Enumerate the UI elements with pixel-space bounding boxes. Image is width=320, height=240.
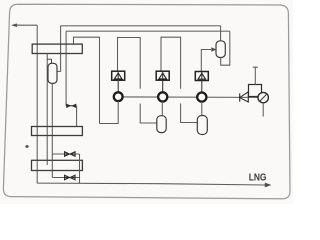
valve C1 (circle): [114, 92, 123, 101]
manifold M0 (top header): [32, 44, 82, 53]
regulator R1 valve circle: [258, 92, 268, 102]
check valve CV1: [240, 92, 249, 102]
stub C3 to pot K2: [201, 102, 203, 116]
drop from B1 to tank T1: [57, 26, 60, 72]
companion line W2 (x=180.6): [181, 104, 198, 123]
bus line B3 (y=37.2 short): [74, 37, 100, 123]
drop from B2 to valve V1: [65, 31, 67, 106]
drop from B1 to tank T2 top: [220, 26, 222, 41]
drain line D1 (y=153.4): [52, 153, 79, 155]
leg L3 feed from tank T2: [201, 50, 211, 72]
valve C3 (circle): [197, 93, 206, 102]
valve C2 (circle): [158, 92, 167, 101]
arrow into tank T2: [212, 48, 217, 52]
solenoid SV3: [195, 72, 208, 81]
leg L2 top bar: [161, 37, 181, 89]
bus line B2 (y=31.2): [66, 30, 230, 32]
stub C2 to pot K1: [161, 102, 163, 116]
companion line W1 (x=140.2): [140, 104, 157, 124]
pipe P2 (x=46.8): [46, 54, 48, 166]
svg-text:LNG: LNG: [249, 173, 267, 184]
valve V3 (bowtie on drain D2): [64, 175, 75, 179]
LNG main line with arrow: [37, 183, 271, 187]
valve V2 (bowtie on drain D1): [64, 152, 75, 156]
regulator R1 internal: [260, 94, 267, 101]
process line (valve row y=96.9): [118, 96, 258, 99]
pot K2 (small drum): [197, 116, 207, 135]
U from tank T2 bottom to B2: [221, 31, 230, 65]
tank T2 (right vessel): [216, 41, 225, 58]
tank T1 (left vessel): [48, 63, 57, 83]
return U from C1 to B3: [100, 101, 119, 123]
solenoid SV1: [112, 71, 125, 80]
pipe P3 (tank T1 bottom run): [51, 83, 53, 177]
outlet arrow (vent, top-left): [12, 24, 38, 27]
regulator R1 body: [249, 85, 262, 97]
regulator R1 pilot line: [253, 67, 258, 84]
tank T1 top stub: [47, 59, 51, 63]
manifold M2: [32, 160, 83, 170]
stub SV3 to valve C3: [201, 72, 203, 93]
valve V1 (bowtie on y=105.5): [66, 104, 77, 108]
pipe P1 (vent riser x=36.7): [36, 25, 38, 183]
stub SV2 to valve C2: [162, 71, 164, 92]
mark a (stray tick): [25, 145, 28, 148]
bus line B1 (y=25.8): [61, 25, 221, 27]
drain header x=80.8: [79, 154, 81, 184]
pot K1 (small drum): [157, 116, 166, 133]
border frame: [3, 4, 290, 199]
stub below regulator: [262, 103, 264, 117]
manifold M1: [32, 127, 83, 136]
stub SV1 to valve C1: [117, 71, 119, 92]
solenoid SV2: [156, 71, 169, 80]
drain line D2 (y=176.4): [52, 177, 79, 179]
drop from valve V1 to manifold M1: [76, 106, 78, 127]
leg L1 top bar: [118, 38, 141, 89]
